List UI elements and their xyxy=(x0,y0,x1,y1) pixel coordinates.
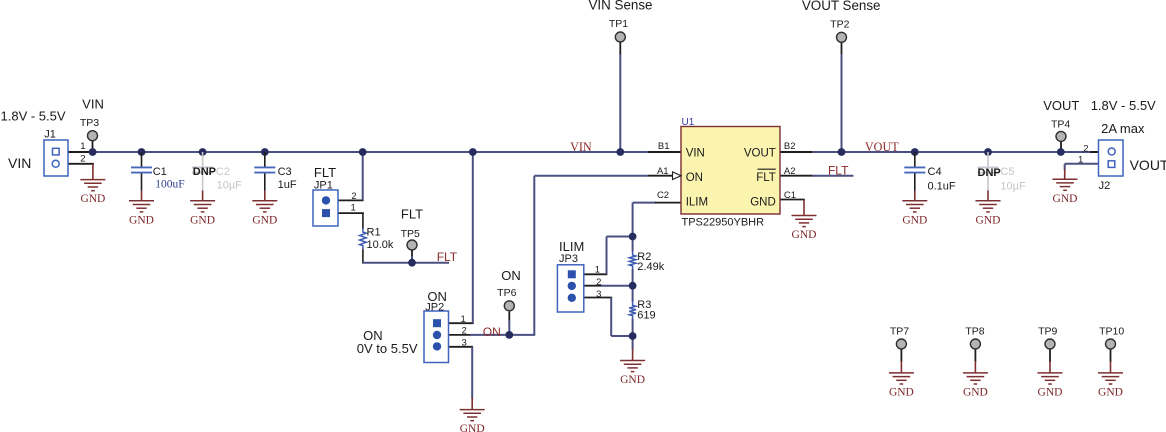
svg-text:2: 2 xyxy=(80,154,85,165)
svg-text:GND: GND xyxy=(190,214,215,226)
svg-text:A2: A2 xyxy=(784,166,796,177)
svg-text:ILIM: ILIM xyxy=(559,239,584,254)
svg-text:TP4: TP4 xyxy=(1051,118,1070,130)
svg-text:2.49k: 2.49k xyxy=(637,261,664,273)
svg-text:TPS22950YBHR: TPS22950YBHR xyxy=(682,216,765,228)
svg-text:TP6: TP6 xyxy=(497,287,516,299)
svg-text:B1: B1 xyxy=(658,141,670,152)
svg-text:DNP: DNP xyxy=(193,166,216,178)
svg-text:R1: R1 xyxy=(367,227,381,239)
svg-text:VOUT: VOUT xyxy=(865,140,899,154)
svg-text:J2: J2 xyxy=(1099,180,1111,192)
svg-text:VIN: VIN xyxy=(82,97,104,112)
svg-text:1: 1 xyxy=(595,265,600,276)
svg-text:1: 1 xyxy=(461,314,466,325)
svg-text:GND: GND xyxy=(129,214,154,226)
svg-text:B2: B2 xyxy=(784,141,796,152)
svg-text:VIN: VIN xyxy=(686,147,705,159)
svg-text:VOUT: VOUT xyxy=(1130,157,1166,173)
svg-text:ON: ON xyxy=(483,325,501,339)
svg-text:A1: A1 xyxy=(657,166,669,177)
svg-text:C1: C1 xyxy=(153,166,167,178)
svg-text:TP8: TP8 xyxy=(965,326,984,338)
svg-text:TP7: TP7 xyxy=(890,326,909,338)
svg-text:FLT: FLT xyxy=(401,206,423,221)
svg-text:VIN: VIN xyxy=(570,140,592,154)
svg-text:1.8V - 5.5V: 1.8V - 5.5V xyxy=(1091,98,1156,113)
svg-text:10µF: 10µF xyxy=(1000,181,1026,193)
svg-text:FLT: FLT xyxy=(314,165,336,180)
svg-text:C1: C1 xyxy=(784,190,796,201)
svg-text:GND: GND xyxy=(902,214,927,226)
svg-text:1uF: 1uF xyxy=(278,179,297,191)
svg-text:1: 1 xyxy=(80,141,85,152)
svg-text:10µF: 10µF xyxy=(217,180,243,192)
svg-text:TP5: TP5 xyxy=(401,228,420,240)
svg-text:VIN Sense: VIN Sense xyxy=(588,0,652,13)
svg-text:ILIM: ILIM xyxy=(686,196,708,208)
svg-text:1: 1 xyxy=(1078,155,1083,166)
svg-text:100uF: 100uF xyxy=(155,178,184,190)
svg-text:TP2: TP2 xyxy=(830,19,849,31)
svg-text:VOUT Sense: VOUT Sense xyxy=(802,0,881,13)
svg-text:GND: GND xyxy=(1098,387,1123,399)
svg-text:TP10: TP10 xyxy=(1099,326,1124,338)
svg-text:ON: ON xyxy=(686,172,703,184)
svg-text:GND: GND xyxy=(1038,387,1063,399)
svg-text:1: 1 xyxy=(351,203,356,214)
svg-text:FLT: FLT xyxy=(756,172,776,184)
svg-text:GND: GND xyxy=(80,193,105,205)
svg-text:GND: GND xyxy=(620,374,645,386)
svg-text:C5: C5 xyxy=(1000,166,1014,178)
svg-text:J1: J1 xyxy=(44,128,56,140)
svg-text:VOUT: VOUT xyxy=(744,147,776,159)
svg-text:GND: GND xyxy=(750,196,776,208)
svg-text:JP2: JP2 xyxy=(425,301,444,313)
svg-text:TP9: TP9 xyxy=(1038,326,1057,338)
svg-text:JP3: JP3 xyxy=(559,253,578,265)
svg-text:2: 2 xyxy=(1083,144,1088,155)
svg-text:C2: C2 xyxy=(657,190,669,201)
svg-text:3: 3 xyxy=(596,289,601,300)
svg-text:1.8V - 5.5V: 1.8V - 5.5V xyxy=(1,108,66,123)
svg-text:DNP: DNP xyxy=(978,167,1001,179)
svg-text:GND: GND xyxy=(1053,193,1078,205)
svg-text:FLT: FLT xyxy=(437,250,458,264)
svg-text:JP1: JP1 xyxy=(314,180,333,192)
svg-text:2A max: 2A max xyxy=(1101,121,1145,136)
svg-text:GND: GND xyxy=(460,423,485,432)
svg-text:GND: GND xyxy=(792,229,817,241)
svg-text:0.1uF: 0.1uF xyxy=(928,181,956,193)
svg-text:C4: C4 xyxy=(928,166,942,178)
svg-text:TP1: TP1 xyxy=(609,18,628,30)
svg-text:3: 3 xyxy=(462,337,467,348)
svg-text:10.0k: 10.0k xyxy=(367,239,394,251)
svg-text:VOUT: VOUT xyxy=(1043,98,1079,113)
svg-text:TP3: TP3 xyxy=(80,117,99,129)
svg-text:GND: GND xyxy=(963,387,988,399)
svg-text:FLT: FLT xyxy=(828,164,849,178)
svg-text:VIN: VIN xyxy=(8,155,31,171)
svg-text:0V to 5.5V: 0V to 5.5V xyxy=(357,341,418,356)
svg-text:GND: GND xyxy=(252,214,277,226)
svg-text:GND: GND xyxy=(976,214,1001,226)
svg-text:ON: ON xyxy=(501,268,521,283)
svg-text:2: 2 xyxy=(596,277,601,288)
svg-text:C3: C3 xyxy=(278,166,292,178)
svg-text:GND: GND xyxy=(889,387,914,399)
svg-text:2: 2 xyxy=(462,326,467,337)
svg-text:U1: U1 xyxy=(682,117,695,128)
svg-text:619: 619 xyxy=(637,310,655,322)
svg-text:2: 2 xyxy=(351,191,356,202)
svg-text:C2: C2 xyxy=(216,166,230,178)
